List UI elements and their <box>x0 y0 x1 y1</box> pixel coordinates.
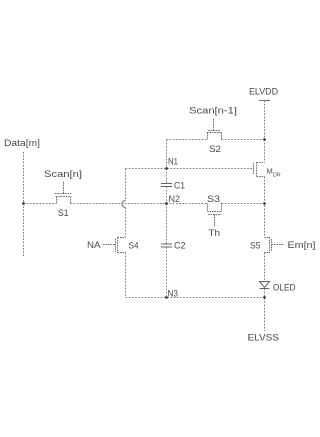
svg-text:NA: NA <box>87 240 101 250</box>
capacitor C2 <box>161 244 172 247</box>
transistor MDR drive <box>254 162 265 177</box>
junction rail / right vertical <box>263 202 266 205</box>
svg-text:S4: S4 <box>129 241 139 251</box>
svg-text:S3: S3 <box>207 194 220 204</box>
svg-text:Scan[n-1]: Scan[n-1] <box>189 106 237 116</box>
node N2 junction <box>165 202 168 205</box>
svg-text:Em[n]: Em[n] <box>288 240 316 250</box>
svg-text:ELVDD: ELVDD <box>249 87 278 97</box>
wire rail right segment (S3 to right vertical) <box>222 203 265 205</box>
node N3 junction <box>165 296 168 299</box>
svg-text:C1: C1 <box>174 181 185 191</box>
wire rail middle segment (S1 to S3) <box>71 203 208 205</box>
wire middle vertical x=166.5 <box>166 140 168 298</box>
svg-text:MDR: MDR <box>267 167 281 179</box>
svg-text:ELVSS: ELVSS <box>248 333 280 343</box>
svg-text:N1: N1 <box>168 157 178 167</box>
svg-text:Data[m]: Data[m] <box>4 138 40 148</box>
wire rail left segment (data line to S1) <box>24 203 57 205</box>
junction ELVDD / S2 <box>263 138 266 141</box>
wire right vertical x=264.5 segments <box>264 140 266 332</box>
wire left vertical x=125.5 lower <box>125 253 127 298</box>
wire left vertical x=125.5 middle <box>125 208 127 238</box>
svg-text:N3: N3 <box>168 289 179 299</box>
diode OLED <box>260 282 270 289</box>
wire S2 drain (to middle vertical) <box>167 139 208 141</box>
svg-text:S5: S5 <box>250 241 261 251</box>
node junction data line / rail <box>22 202 25 205</box>
svg-text:Scan[n]: Scan[n] <box>44 169 82 179</box>
capacitor C1 <box>161 184 172 187</box>
transistor S3 <box>207 204 222 227</box>
wire Data[m] vertical data line <box>23 152 25 257</box>
wire crossover hop at rail <box>122 201 126 208</box>
wire node N1 horizontal (to MDR gate) <box>126 168 254 170</box>
wire node N3 horizontal <box>126 297 265 299</box>
transistor S4 <box>103 237 126 253</box>
power ELVDD terminal <box>259 101 270 140</box>
svg-text:Th: Th <box>209 228 221 238</box>
svg-text:S1: S1 <box>58 208 69 218</box>
svg-text:OLED: OLED <box>273 283 296 293</box>
wire left vertical x=125.5 upper <box>125 169 127 201</box>
transistor S1 <box>55 182 72 204</box>
node N1 junction <box>165 167 168 170</box>
svg-text:S2: S2 <box>209 144 221 154</box>
svg-text:N2: N2 <box>169 194 181 204</box>
junction N3 / OLED cathode <box>263 296 266 299</box>
svg-text:C2: C2 <box>174 241 186 251</box>
wire S2 source (to ELVDD vertical) <box>222 139 265 141</box>
transistor S5 <box>265 237 285 253</box>
transistor S2 <box>207 119 222 140</box>
